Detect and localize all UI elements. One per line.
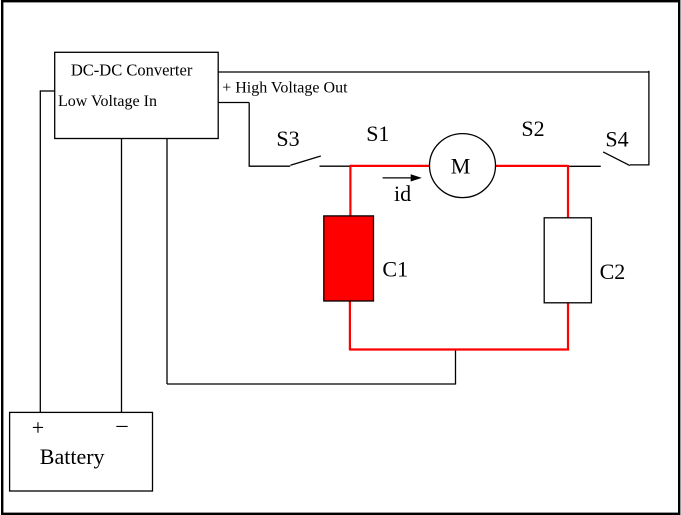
- svg-text:C2: C2: [600, 259, 626, 284]
- svg-text:Battery: Battery: [40, 444, 105, 469]
- svg-text:S2: S2: [521, 116, 544, 141]
- svg-text:Low Voltage In: Low Voltage In: [58, 93, 157, 110]
- svg-text:+: +: [32, 415, 44, 440]
- svg-text:–: –: [116, 412, 129, 437]
- svg-text:DC-DC Converter: DC-DC Converter: [71, 60, 193, 79]
- svg-text:S4: S4: [605, 126, 628, 151]
- svg-text:+ High Voltage Out: + High Voltage Out: [222, 79, 348, 96]
- svg-text:S1: S1: [366, 121, 389, 146]
- svg-text:id: id: [394, 181, 411, 206]
- svg-text:S3: S3: [276, 126, 299, 151]
- svg-text:M: M: [451, 153, 471, 178]
- svg-text:C1: C1: [382, 257, 408, 282]
